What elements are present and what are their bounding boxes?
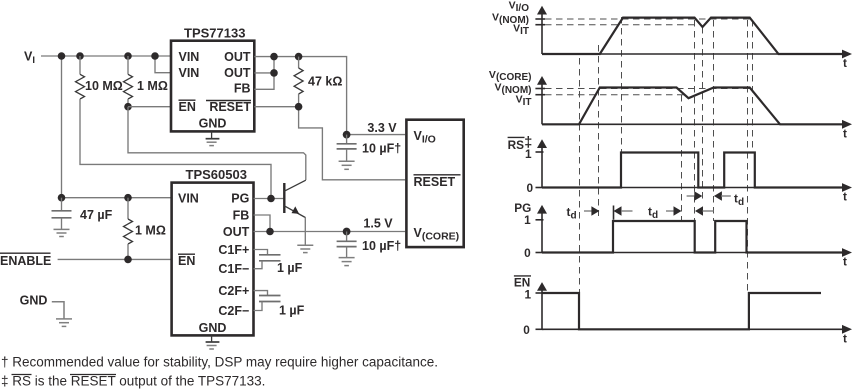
capacitor C2F 1uF: [254, 291, 268, 296]
svg-text:C1F+: C1F+: [218, 243, 249, 257]
wire dashed guide VIO-dip: [702, 27, 704, 203]
svg-text:3.3 V: 3.3 V: [367, 121, 397, 135]
wire dashed VIT level p2: [545, 94, 688, 96]
node EN junction TPS77133: [124, 103, 132, 111]
svg-text:1 µF: 1 µF: [279, 303, 305, 317]
ground TPS77133 GND pin: [211, 131, 213, 138]
wire RS waveform: [542, 153, 843, 188]
svg-text:RS: RS: [508, 138, 525, 152]
node junction dots on VI rail: [58, 52, 66, 60]
wire RS axis vertical: [541, 147, 543, 188]
node td annotation row A (RS): [687, 195, 695, 197]
capacitor 10uF (1.5V): [346, 232, 348, 242]
wire dashed VIT level p1: [545, 24, 696, 26]
ground transistor emitter: [297, 244, 313, 246]
svg-text:10 µF†: 10 µF†: [362, 142, 401, 156]
op-amp U1 TPS77133 box: [171, 41, 254, 132]
wire OUT1 to 3.3V node: [254, 57, 405, 135]
wire OUT2 stub: [254, 72, 274, 74]
wire EN axis vertical: [541, 290, 543, 329]
wire 47uF VIN rail TPS60503: [62, 197, 172, 199]
resistor R 1Mohm upper: [127, 56, 129, 74]
wire RESET to DSP: [254, 107, 405, 180]
ground TPS60503 GND pin: [211, 335, 213, 342]
wire VIN2 branch: [155, 56, 171, 73]
svg-text:EN: EN: [179, 100, 196, 114]
svg-text:t: t: [843, 255, 847, 269]
wire dashed VNOM level p1: [545, 18, 750, 20]
wire FB stub TPS60503: [254, 215, 271, 232]
svg-text:t: t: [843, 331, 847, 345]
wire VIO axis baseline: [542, 53, 844, 55]
wire RS axis baseline: [542, 187, 844, 189]
svg-text:RESET: RESET: [414, 175, 456, 189]
wire VI to 47uF cap drop: [61, 56, 63, 198]
svg-text:0: 0: [526, 181, 533, 195]
wire EN waveform: [542, 293, 821, 329]
wire VCORE axis vertical: [541, 84, 543, 124]
svg-text:1 MΩ: 1 MΩ: [135, 224, 166, 238]
svg-text:EN: EN: [178, 254, 195, 268]
ground GND symbol: [52, 302, 64, 319]
capacitor 10uF (3.3V): [346, 135, 348, 144]
svg-text:1.5 V: 1.5 V: [363, 216, 393, 230]
resistor 47kohm pull-up: [298, 57, 300, 68]
resistor 1Mohm lower: [127, 198, 129, 219]
wire VIO waveform: [542, 18, 843, 54]
wire EN axis baseline: [542, 328, 844, 330]
wire VCORE axis baseline: [542, 123, 844, 125]
svg-text:t: t: [843, 190, 847, 204]
svg-text:C1F−: C1F−: [218, 262, 249, 276]
wire EN junction down to transistor collector: [128, 107, 306, 180]
wire PG waveform: [542, 221, 843, 253]
op-amp U2 TPS60503 box: [172, 183, 254, 336]
svg-text:VIN: VIN: [178, 192, 199, 206]
svg-text:1 µF: 1 µF: [277, 261, 303, 275]
svg-text:47 µF: 47 µF: [80, 208, 113, 222]
wire OUT 1.5V line: [254, 231, 406, 233]
svg-text:RESET: RESET: [209, 100, 251, 114]
svg-text:FB: FB: [234, 82, 251, 96]
svg-text:OUT: OUT: [224, 50, 251, 64]
wire dashed guide VIO-rise-start: [598, 45, 600, 216]
wire PG axis vertical: [541, 213, 543, 253]
resistor 10Mohm: [79, 56, 81, 74]
svg-text:1 MΩ: 1 MΩ: [137, 79, 168, 93]
svg-text:1: 1: [525, 147, 532, 161]
svg-text:ENABLE: ENABLE: [0, 254, 51, 268]
svg-text:PG: PG: [231, 192, 249, 206]
svg-text:GND: GND: [199, 116, 227, 130]
svg-text:t: t: [843, 126, 847, 140]
svg-text:OUT: OUT: [223, 225, 250, 239]
svg-text:FB: FB: [233, 208, 250, 222]
wire dashed guide RS-fall-final: [752, 20, 754, 153]
svg-text:VIN: VIN: [179, 66, 200, 80]
op-amp U3 DSP box: [406, 120, 463, 247]
svg-text:0: 0: [523, 323, 530, 337]
wire VCORE waveform: [542, 88, 843, 125]
wire PG to transistor base: [254, 198, 285, 200]
svg-text:OUT: OUT: [224, 66, 251, 80]
svg-text:TPS77133: TPS77133: [184, 26, 245, 41]
wire dashed guide VIO-recover: [713, 20, 715, 221]
svg-text:10 µF†: 10 µF†: [362, 239, 401, 253]
wire dashed VNOM level p2: [545, 88, 750, 90]
svg-text:C2F+: C2F+: [218, 284, 249, 298]
wire dashed guide VCORE-VIT-cross: [681, 95, 683, 221]
capacitor 47uF: [61, 198, 63, 211]
svg-text:10 MΩ: 10 MΩ: [85, 79, 123, 93]
wire VIO axis vertical: [541, 13, 543, 54]
wire EN to TPS77133: [128, 106, 171, 108]
svg-text:47 kΩ: 47 kΩ: [308, 75, 342, 89]
svg-text:TPS60503: TPS60503: [186, 167, 247, 182]
svg-text:0: 0: [524, 246, 531, 260]
svg-text:1: 1: [524, 287, 531, 301]
wire PG axis baseline: [542, 252, 844, 254]
wire ENABLE to EN: [58, 258, 172, 260]
svg-text:† Recommended value for stabil: † Recommended value for stability, DSP m…: [1, 355, 438, 370]
wire VI main rail: [41, 55, 171, 57]
wire dashed guide PG-fall: [694, 20, 696, 221]
wire dashed guide VIO-top: [621, 17, 623, 153]
wire dashed guide EN-fall: [579, 58, 581, 293]
capacitor C1F 1uF: [254, 250, 268, 255]
svg-text:t: t: [843, 56, 847, 70]
wire FB stub joins OUT2: [254, 57, 274, 90]
svg-text:GND: GND: [199, 321, 227, 335]
transistor Q1: [283, 183, 285, 213]
svg-text:VIN: VIN: [179, 50, 200, 64]
svg-text:1: 1: [524, 213, 531, 227]
node 3.3V: [343, 131, 351, 139]
svg-text:‡ RS is the RESET output of th: ‡ RS is the RESET output of the TPS77133…: [1, 374, 265, 389]
svg-text:GND: GND: [20, 293, 48, 307]
svg-text:C2F−: C2F−: [218, 304, 249, 318]
wire dashed guide EN-rise: [747, 20, 749, 293]
